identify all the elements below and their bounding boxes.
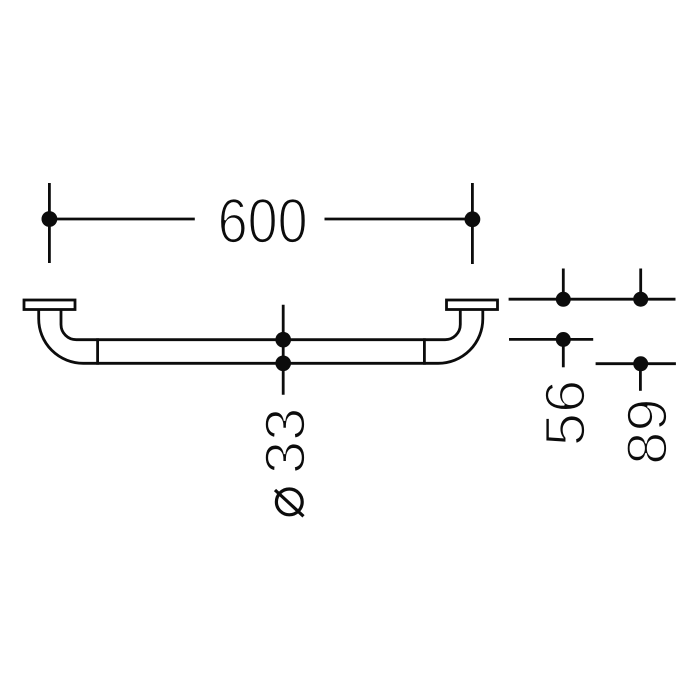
svg-text:600: 600 [218,186,308,256]
dimension 600: right dot [465,211,481,227]
diameter dimension: diameter symbol slash [275,490,304,516]
dimension 600: right line segment [325,218,473,221]
dimension 600: left line segment [49,218,194,221]
wall reference: tick 1 up [562,269,565,300]
wall reference: tick 2 up [639,269,642,300]
wall reference: dot 1 [556,292,571,307]
diameter dimension: bottom dot [275,356,291,372]
dimension 600: label 600 [218,186,308,256]
dimension 600: left dot [42,211,58,227]
dimension 56: line [509,338,593,341]
grab bar: inner contour (top line) [61,310,460,340]
diameter dimension: center extension line [282,305,285,395]
grab bar: left joint line [96,338,99,364]
grab bar: right joint line [423,338,426,364]
grab bar: right flange plate [447,300,498,310]
dimension 89: tick down [639,364,642,391]
svg-text:33: 33 [254,408,317,475]
diameter dimension: label 33 (rotated) [254,408,317,475]
dimension 89: line [596,362,676,365]
dimension 56: label 56 (rotated) [534,380,597,447]
grab bar: left flange plate [24,300,75,310]
diameter dimension: diameter symbol circle [276,489,302,515]
dimension 89: label 89 (rotated) [616,398,679,465]
dimension 600: left extension line [48,183,51,263]
dimension 600: right extension line [471,183,474,264]
dimension 56: tick down [562,339,565,367]
diameter dimension: top dot [275,332,291,348]
wall reference: dot 2 [633,292,648,307]
grab bar: outer contour (left neck, bottom line, right neck) [39,310,483,364]
dimension 56: dot [556,332,571,347]
wall reference line [509,298,676,301]
dimension 89: dot [633,356,648,371]
svg-text:56: 56 [534,380,597,447]
svg-text:89: 89 [616,398,679,465]
